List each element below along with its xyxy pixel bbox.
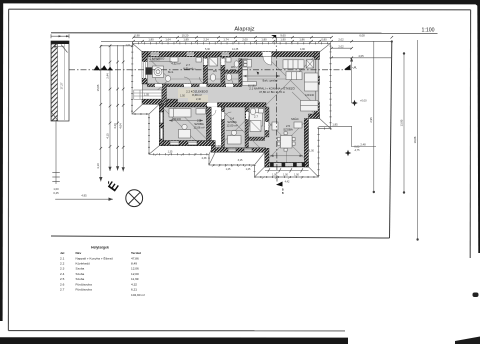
svg-text:2.5: 2.5 bbox=[60, 277, 65, 281]
svg-text:11,99: 11,99 bbox=[131, 277, 139, 281]
faucet mark bbox=[257, 72, 260, 76]
svg-text:Terület: Terület bbox=[131, 251, 141, 255]
left fence top dark bar bbox=[51, 41, 69, 44]
window left wall bbox=[142, 62, 147, 78]
bottom-left dim line bbox=[55, 198, 113, 200]
svg-text:2.2: 2.2 bbox=[60, 262, 65, 266]
left wall door gap lines bbox=[141, 84, 143, 99]
svg-text:4,20: 4,20 bbox=[113, 123, 117, 129]
svg-text:1,00: 1,00 bbox=[294, 173, 299, 176]
svg-text:6,08: 6,08 bbox=[359, 33, 365, 37]
svg-text:0,45: 0,45 bbox=[53, 191, 59, 195]
left vertical dim line 3 bbox=[122, 45, 124, 172]
svg-text:2,24: 2,24 bbox=[203, 37, 209, 41]
svg-text:4,04: 4,04 bbox=[119, 123, 123, 129]
svg-text:2,40: 2,40 bbox=[196, 98, 201, 101]
right block right wall bbox=[304, 119, 308, 168]
svg-text:2.4: 2.4 bbox=[60, 272, 65, 276]
terrace dim ticks row bbox=[265, 169, 309, 171]
svg-text:2,38: 2,38 bbox=[202, 157, 207, 160]
svg-text:1,86: 1,86 bbox=[299, 37, 305, 41]
svg-text:Burk.: Burk. bbox=[168, 71, 174, 74]
svg-text:2.7: 2.7 bbox=[60, 288, 65, 292]
bedroom 2.3 furniture bbox=[169, 109, 206, 139]
svg-text:19,86: 19,86 bbox=[413, 136, 417, 143]
svg-text:-4,75: -4,75 bbox=[354, 149, 360, 152]
svg-text:10,20: 10,20 bbox=[182, 33, 189, 37]
svg-text:Jel: Jel bbox=[60, 251, 64, 255]
svg-text:0,80: 0,80 bbox=[321, 37, 327, 41]
svg-text:1,00: 1,00 bbox=[309, 150, 314, 153]
svg-text:Helyiségek: Helyiségek bbox=[91, 246, 109, 250]
fence hip diagonal top bbox=[61, 45, 68, 53]
right vertical dim 373 bbox=[373, 42, 375, 193]
svg-text:1,90: 1,90 bbox=[280, 37, 286, 41]
exterior walls hatched bbox=[142, 52, 320, 168]
black mat right band bbox=[477, 0, 480, 253]
bedroom block top wall bbox=[161, 103, 208, 107]
left fence outer rect bbox=[51, 41, 69, 121]
right vertical dim 417 bbox=[417, 40, 419, 240]
svg-text:2,95: 2,95 bbox=[369, 117, 373, 123]
svg-text:0,98: 0,98 bbox=[134, 33, 140, 37]
kitchen: left counter strip + sink bbox=[242, 59, 256, 86]
left wall upper bbox=[142, 52, 147, 85]
small mark right edge bbox=[473, 293, 479, 298]
svg-text:2,48: 2,48 bbox=[360, 143, 366, 147]
top dim line 1 bbox=[133, 36, 331, 38]
room labels bbox=[150, 56, 296, 132]
right vertical dim 404 bbox=[403, 54, 405, 193]
level markers bbox=[252, 72, 358, 157]
svg-text:Közlekedő: Közlekedő bbox=[76, 262, 91, 266]
svg-text:4,90: 4,90 bbox=[300, 48, 305, 51]
svg-text:2,00: 2,00 bbox=[242, 37, 248, 41]
svg-text:2,02: 2,02 bbox=[338, 44, 344, 48]
room table bbox=[60, 246, 145, 298]
fence top dim line bbox=[51, 35, 69, 37]
lot boundary line vertical bbox=[390, 42, 392, 239]
dim tick marks top line bbox=[100, 36, 394, 150]
step wall x264 bbox=[265, 148, 269, 167]
dashed ridge in corridor strip bbox=[217, 107, 219, 151]
dim end arrows/dots bbox=[99, 177, 102, 182]
dining table bbox=[286, 72, 302, 80]
svg-text:9,60: 9,60 bbox=[280, 33, 286, 37]
svg-text:1,00: 1,00 bbox=[53, 187, 59, 191]
svg-text:SZOBA: SZOBA bbox=[283, 128, 293, 132]
svg-text:47,86: 47,86 bbox=[131, 256, 139, 260]
black mat top band bbox=[0, 0, 480, 8]
eaves outline bbox=[132, 43, 331, 177]
svg-text:1,85: 1,85 bbox=[332, 122, 338, 126]
black mat bottom band bbox=[0, 337, 348, 344]
svg-text:4,42: 4,42 bbox=[285, 181, 290, 184]
right horizontal dim y58 bbox=[331, 57, 392, 59]
svg-text:1,80: 1,80 bbox=[261, 37, 267, 41]
svg-text:12,06 m²: 12,06 m² bbox=[193, 126, 204, 130]
lot boundary line horizontal bbox=[51, 236, 390, 238]
svg-text:3,15: 3,15 bbox=[238, 159, 243, 162]
hip diagonals at eaves corners bbox=[132, 43, 331, 177]
furniture: bath 2.6 bbox=[146, 57, 179, 81]
svg-text:1,64: 1,64 bbox=[165, 37, 171, 41]
svg-text:-A: -A bbox=[352, 65, 356, 70]
left eaves dim line bbox=[101, 45, 133, 47]
furniture: wc room bbox=[196, 58, 218, 82]
bottom eaves tick marks under left/middle blocks bbox=[155, 153, 304, 179]
svg-text:Burk.: greslap: Burk.: greslap bbox=[263, 80, 278, 83]
svg-text:1,74: 1,74 bbox=[223, 37, 229, 41]
entry door arc living bbox=[263, 57, 272, 66]
svg-text:1,25: 1,25 bbox=[226, 168, 231, 171]
step wall x215 bbox=[211, 141, 215, 153]
svg-text:2,44: 2,44 bbox=[106, 73, 110, 79]
entrance porch white + steps bbox=[134, 90, 162, 99]
svg-text:4,05: 4,05 bbox=[358, 54, 364, 58]
top dim line 2 bbox=[101, 40, 392, 42]
svg-text:180/200: 180/200 bbox=[172, 118, 182, 121]
top wall bbox=[142, 52, 320, 57]
svg-text:2.6: 2.6 bbox=[60, 282, 65, 286]
svg-text:Szoba: Szoba bbox=[76, 277, 85, 281]
fence small cross mark bbox=[54, 45, 57, 48]
svg-text:1,35: 1,35 bbox=[168, 151, 173, 154]
svg-text:1,01: 1,01 bbox=[126, 44, 131, 47]
eaves tick texture bbox=[132, 43, 331, 177]
porch bottom wall bbox=[142, 99, 178, 104]
sofa / wardrobe right wall bbox=[301, 73, 319, 111]
bath 2.7 fixtures bbox=[250, 108, 264, 131]
middle bottom wall bbox=[213, 148, 265, 153]
svg-text:120/240: 120/240 bbox=[305, 94, 315, 97]
svg-text:Alaprajz: Alaprajz bbox=[234, 27, 254, 33]
svg-text:12,00: 12,00 bbox=[131, 272, 139, 276]
svg-text:1,80: 1,80 bbox=[148, 37, 154, 41]
svg-text:90/240: 90/240 bbox=[152, 59, 160, 62]
svg-text:12,00 m²: 12,00 m² bbox=[226, 124, 237, 128]
furniture: small wc bbox=[226, 58, 239, 81]
right vertical dim 351 bbox=[351, 58, 353, 104]
svg-text:12,06: 12,06 bbox=[131, 267, 139, 271]
section line B-B vertical on top bbox=[271, 35, 284, 195]
bottom-right page corner wedge bbox=[455, 337, 480, 344]
misc small dim texts around building bbox=[126, 44, 315, 184]
svg-text:15,65: 15,65 bbox=[96, 84, 100, 91]
svg-text:4,15: 4,15 bbox=[106, 133, 110, 139]
survey ticks bbox=[52, 172, 60, 174]
svg-text:1:100: 1:100 bbox=[422, 28, 435, 34]
svg-text:SZÉLF.: SZÉLF. bbox=[291, 118, 300, 121]
step wall right bbox=[309, 114, 320, 119]
north symbol circle bbox=[126, 190, 143, 207]
interior door gaps (white) bbox=[155, 52, 272, 130]
svg-text:Szoba: Szoba bbox=[76, 272, 85, 276]
black mat left band bbox=[0, 0, 3, 321]
sheet frame bbox=[9, 8, 471, 11]
svg-text:6,21: 6,21 bbox=[131, 288, 137, 292]
dimension lines bbox=[55, 37, 417, 239]
svg-text:13,95: 13,95 bbox=[399, 119, 403, 126]
svg-text:1,05: 1,05 bbox=[144, 94, 149, 97]
svg-text:1,00: 1,00 bbox=[283, 173, 288, 176]
svg-text:1,89: 1,89 bbox=[183, 37, 189, 41]
svg-text:2.3: 2.3 bbox=[60, 267, 65, 271]
svg-text:2,02: 2,02 bbox=[338, 37, 344, 41]
svg-text:60/180: 60/180 bbox=[248, 85, 256, 88]
svg-text:Nappali + Konyha + Étkező: Nappali + Konyha + Étkező bbox=[76, 255, 114, 260]
bedroom 2.4 furniture bbox=[228, 108, 263, 144]
door swing arcs bbox=[155, 77, 277, 130]
terrace dim lines bbox=[319, 126, 377, 146]
svg-text:102,90 m²: 102,90 m² bbox=[131, 293, 145, 297]
interior partitions bbox=[147, 57, 269, 148]
section line A-A dash-dot on top bbox=[69, 65, 356, 71]
corridor white strip bbox=[211, 107, 221, 145]
left fence hatched wall bbox=[51, 44, 57, 121]
svg-text:4,32 m²: 4,32 m² bbox=[171, 62, 181, 66]
svg-text:1,50: 1,50 bbox=[180, 95, 185, 98]
internal dim chains bbox=[149, 62, 303, 156]
svg-text:1,25: 1,25 bbox=[246, 168, 251, 171]
svg-text:5,30: 5,30 bbox=[205, 48, 210, 51]
left vertical dim line 1 bbox=[100, 45, 102, 182]
pale yellow highlight bbox=[178, 89, 208, 103]
svg-text:2.1: 2.1 bbox=[60, 256, 65, 260]
kitchen counter top right bbox=[283, 60, 314, 69]
header rule bbox=[51, 32, 438, 34]
svg-text:4,32: 4,32 bbox=[131, 282, 137, 286]
left vertical dim line 1b bbox=[109, 46, 111, 171]
left block bottom wall bbox=[159, 141, 213, 146]
svg-text:+0,00: +0,00 bbox=[360, 99, 367, 103]
svg-text:WC: WC bbox=[213, 70, 217, 73]
svg-text:Fürdőszoba: Fürdőszoba bbox=[76, 282, 93, 286]
svg-text:14,35: 14,35 bbox=[232, 48, 239, 51]
top wall window gaps bbox=[151, 52, 230, 56]
left vertical dim line 2 bbox=[117, 45, 119, 171]
svg-text:8,49 m²: 8,49 m² bbox=[192, 93, 202, 97]
fence corner diagonal bottom bbox=[52, 113, 59, 121]
svg-text:47,86 m² Bm: 2,70 m: 47,86 m² Bm: 2,70 m bbox=[259, 90, 286, 94]
svg-text:90/240: 90/240 bbox=[251, 104, 259, 107]
svg-text:8,49: 8,49 bbox=[131, 262, 137, 266]
svg-text:WC: WC bbox=[231, 66, 235, 69]
svg-text:2.7: 2.7 bbox=[254, 115, 258, 119]
left block left wall bbox=[159, 104, 164, 146]
right wall with window band bbox=[314, 52, 319, 60]
dining room right block furniture bbox=[272, 122, 302, 151]
fence inner line bbox=[64, 44, 66, 120]
svg-text:3,10: 3,10 bbox=[96, 163, 100, 169]
tiny dim texts top bbox=[134, 33, 366, 146]
right block bottom wall bbox=[265, 162, 309, 167]
roof ridge/hip lines over rooms bbox=[142, 52, 320, 168]
fence survey line down bbox=[55, 121, 57, 184]
svg-text:4,95: 4,95 bbox=[81, 194, 87, 198]
svg-text:B: B bbox=[282, 191, 284, 195]
svg-text:-0,02: -0,02 bbox=[354, 145, 360, 149]
building interior gray floor bbox=[142, 52, 320, 168]
right horizontal dim y48 bbox=[331, 47, 352, 49]
tiny dim texts left rotated bbox=[81, 73, 417, 198]
svg-text:Fürdőszoba: Fürdőszoba bbox=[76, 288, 93, 292]
svg-text:17,27: 17,27 bbox=[60, 82, 64, 89]
svg-text:Név: Név bbox=[76, 251, 82, 255]
svg-text:Szoba: Szoba bbox=[76, 267, 85, 271]
